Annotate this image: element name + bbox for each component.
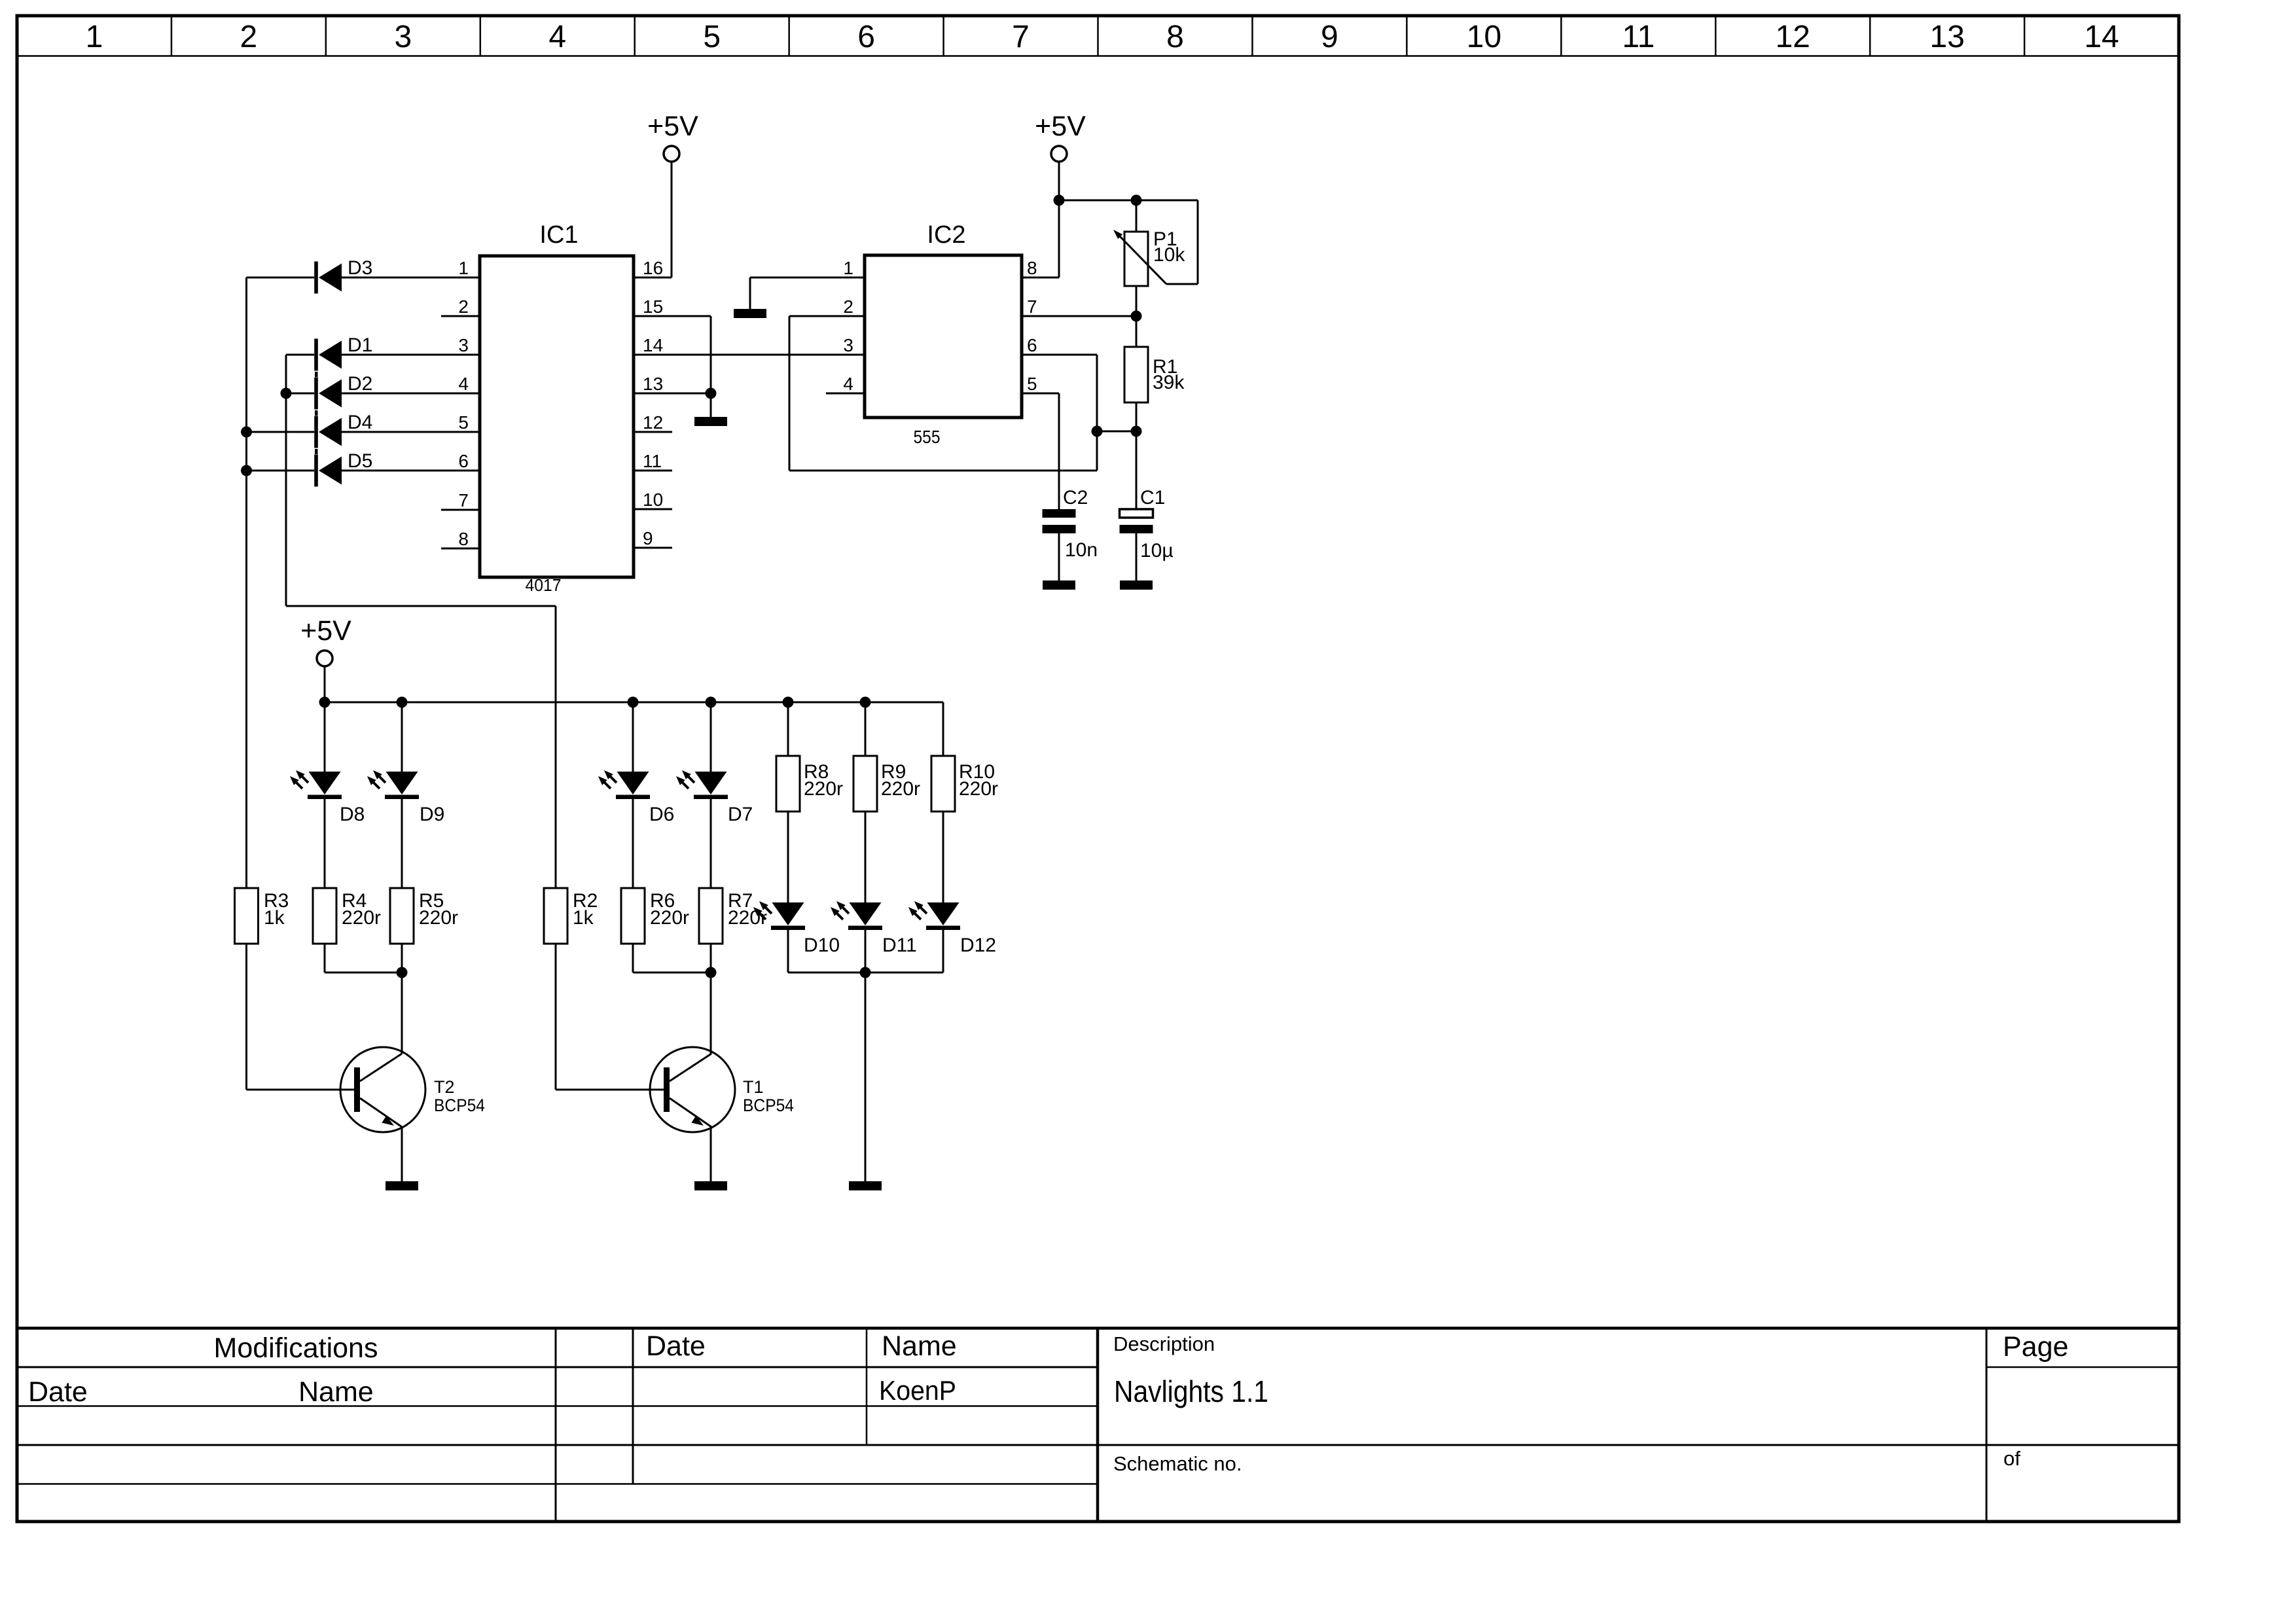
svg-text:39k: 39k — [1153, 372, 1185, 393]
svg-text:5: 5 — [703, 20, 721, 54]
svg-text:Page: Page — [2003, 1331, 2068, 1363]
svg-text:Schematic no.: Schematic no. — [1113, 1452, 1242, 1475]
svg-text:13: 13 — [643, 374, 663, 394]
svg-text:220r: 220r — [881, 778, 920, 800]
svg-text:9: 9 — [643, 528, 653, 548]
svg-text:D6: D6 — [649, 804, 674, 825]
svg-text:1: 1 — [458, 258, 469, 278]
svg-text:1k: 1k — [573, 907, 594, 929]
svg-text:220r: 220r — [650, 907, 689, 929]
svg-text:7: 7 — [1012, 20, 1030, 54]
svg-text:D5: D5 — [348, 450, 372, 472]
svg-text:15: 15 — [643, 296, 663, 317]
svg-text:4: 4 — [843, 374, 853, 394]
svg-text:T1: T1 — [743, 1077, 764, 1097]
svg-text:14: 14 — [2084, 20, 2119, 54]
svg-text:4: 4 — [458, 374, 469, 394]
svg-text:D9: D9 — [420, 804, 444, 825]
svg-text:1: 1 — [86, 20, 103, 54]
svg-text:4: 4 — [548, 20, 566, 54]
svg-text:KoenP: KoenP — [879, 1375, 956, 1406]
svg-text:555: 555 — [914, 427, 941, 447]
svg-text:D2: D2 — [348, 373, 372, 395]
svg-text:D10: D10 — [804, 935, 840, 956]
svg-text:Navlights 1.1: Navlights 1.1 — [1114, 1374, 1268, 1408]
svg-text:7: 7 — [458, 490, 469, 510]
svg-text:Description: Description — [1113, 1332, 1215, 1355]
svg-text:11: 11 — [643, 451, 662, 471]
svg-text:D12: D12 — [960, 935, 996, 956]
svg-text:+5V: +5V — [300, 615, 351, 647]
svg-text:Date: Date — [28, 1376, 88, 1408]
svg-text:13: 13 — [1929, 20, 1964, 54]
svg-text:1: 1 — [843, 258, 853, 278]
svg-text:6: 6 — [1027, 335, 1037, 355]
svg-text:10: 10 — [643, 490, 663, 510]
svg-text:Date: Date — [646, 1330, 706, 1362]
svg-text:5: 5 — [1027, 374, 1037, 394]
svg-text:4017: 4017 — [526, 575, 562, 595]
svg-text:+5V: +5V — [647, 111, 698, 142]
svg-text:C1: C1 — [1140, 487, 1165, 508]
svg-text:220r: 220r — [419, 907, 458, 929]
svg-text:BCP54: BCP54 — [434, 1096, 485, 1115]
svg-text:T2: T2 — [434, 1077, 455, 1097]
svg-text:5: 5 — [458, 412, 469, 433]
svg-text:10k: 10k — [1153, 244, 1185, 266]
svg-text:12: 12 — [1775, 20, 1810, 54]
svg-text:D8: D8 — [340, 804, 365, 825]
svg-text:2: 2 — [843, 296, 853, 317]
svg-text:Name: Name — [882, 1330, 957, 1362]
svg-text:2: 2 — [458, 296, 469, 317]
svg-text:Modifications: Modifications — [214, 1332, 378, 1364]
svg-text:10µ: 10µ — [1140, 540, 1174, 562]
svg-text:6: 6 — [458, 451, 469, 471]
svg-text:C2: C2 — [1063, 487, 1088, 508]
svg-text:12: 12 — [643, 412, 663, 433]
svg-text:IC2: IC2 — [927, 221, 965, 249]
svg-text:8: 8 — [458, 529, 469, 549]
svg-text:+5V: +5V — [1035, 111, 1086, 142]
svg-text:8: 8 — [1166, 20, 1184, 54]
svg-text:6: 6 — [857, 20, 875, 54]
svg-text:7: 7 — [1027, 296, 1037, 317]
svg-text:2: 2 — [240, 20, 258, 54]
svg-text:D3: D3 — [348, 257, 372, 279]
svg-text:3: 3 — [843, 335, 853, 355]
svg-text:D1: D1 — [348, 334, 372, 356]
svg-text:3: 3 — [458, 335, 469, 355]
svg-text:8: 8 — [1027, 258, 1037, 278]
svg-text:Name: Name — [298, 1376, 374, 1408]
svg-text:14: 14 — [643, 335, 663, 355]
svg-text:10: 10 — [1467, 20, 1501, 54]
svg-text:D11: D11 — [882, 935, 917, 956]
svg-text:1k: 1k — [264, 907, 285, 929]
svg-text:11: 11 — [1622, 20, 1655, 54]
svg-text:220r: 220r — [728, 907, 767, 929]
svg-text:D7: D7 — [728, 804, 753, 825]
svg-text:220r: 220r — [804, 778, 843, 800]
svg-text:16: 16 — [643, 258, 663, 278]
svg-text:9: 9 — [1321, 20, 1338, 54]
svg-text:D4: D4 — [348, 412, 372, 433]
svg-text:of: of — [2003, 1447, 2020, 1470]
svg-text:220r: 220r — [959, 778, 998, 800]
svg-text:3: 3 — [394, 20, 412, 54]
svg-text:220r: 220r — [342, 907, 381, 929]
svg-text:BCP54: BCP54 — [743, 1096, 794, 1115]
svg-text:10n: 10n — [1065, 539, 1098, 561]
svg-text:IC1: IC1 — [539, 221, 578, 249]
